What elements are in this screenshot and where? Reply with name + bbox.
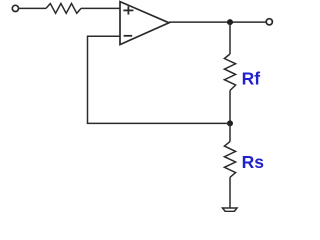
ground: [223, 208, 238, 211]
wire: [169, 21, 266, 23]
pin - (inverting input marker): [124, 35, 133, 37]
wire: [229, 123, 231, 141]
value label Rs: [242, 152, 265, 172]
svg-text:Rs: Rs: [242, 152, 265, 172]
resistor Rf: [224, 54, 235, 91]
wire: [229, 22, 231, 54]
wire: [81, 7, 120, 9]
svg-text:Rf: Rf: [242, 69, 261, 89]
node (feedback junction): [227, 120, 233, 126]
pin + (non-inverting input marker): [123, 6, 133, 14]
wire: [229, 177, 231, 208]
resistor Rs: [224, 142, 235, 178]
node (output junction): [227, 19, 233, 25]
wire (feedback path): [88, 36, 231, 123]
wire: [229, 91, 231, 124]
value label Rf: [242, 69, 261, 89]
node Vin (input terminal): [12, 5, 18, 11]
op-amp U1: [120, 2, 169, 45]
wire: [19, 7, 46, 9]
resistor R1: [46, 4, 81, 14]
node Vout (output terminal): [266, 19, 272, 25]
